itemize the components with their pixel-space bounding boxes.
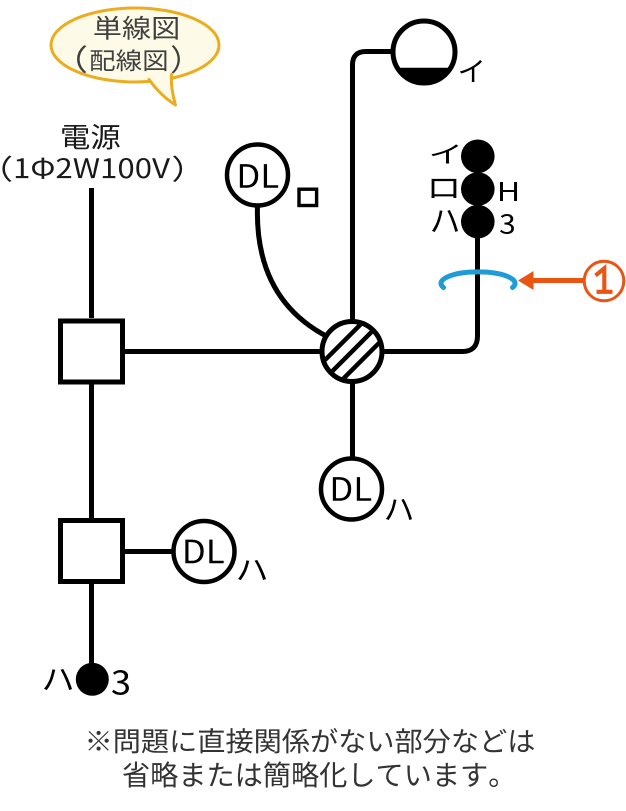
note line2 [123, 761, 498, 787]
label HA (switch) [432, 210, 458, 232]
label HA (bottom DL) [386, 499, 412, 520]
bubble text line2 open paren [77, 45, 86, 73]
wire: ceiling rosette to joint box [353, 52, 394, 322]
switch I (top dot) [461, 140, 495, 174]
VVF joint box (hatched circle) [313, 313, 392, 392]
orange arrow head [518, 271, 534, 290]
label HA (bottom switch) [44, 669, 72, 690]
label 3 (bottom switch) [112, 670, 129, 695]
blue arc marker (cable count) [441, 272, 515, 288]
label DENGEN (power source) [62, 124, 120, 150]
downlight DL RO (top) [227, 145, 288, 206]
downlight DL HA (left) [174, 521, 235, 582]
power spec 1phi2W100V [16, 158, 170, 179]
text DL (left downlight) [185, 540, 223, 564]
label I (switch) [431, 144, 458, 163]
orange arrow shaft [532, 278, 588, 283]
text DL (top downlight) [240, 164, 278, 188]
label RO square (top DL) [299, 189, 317, 205]
bubble text line2 close paren [172, 45, 180, 73]
wire: box1 to joint box [125, 349, 323, 354]
switch RO with pilot lamp H (middle dot) [461, 172, 495, 206]
label H (pilot lamp) [500, 182, 517, 201]
speech bubble tail [149, 75, 176, 106]
wire: joint box right, up to switch stack [382, 238, 478, 352]
3-way switch HA (bottom black dot) [76, 663, 109, 696]
power spec open paren [2, 156, 11, 182]
label I (ceiling rosette) [460, 60, 482, 82]
callout number 1 circle [584, 261, 624, 301]
downlight DL HA (center-bottom) [321, 459, 382, 520]
wire: power lead down to box 1 [89, 188, 94, 318]
bubble text line1 (tansenzu) [94, 16, 177, 40]
power spec close paren [173, 156, 182, 183]
label RO (switch) [431, 179, 456, 198]
bubble text line2 (haisenzu) [91, 49, 167, 71]
wire: downlight DL RO to joint box (curved) [257, 206, 328, 338]
label HA (left DL) [238, 560, 266, 580]
wire: box2 down to 3-way switch HA [89, 584, 94, 666]
wire: joint box down to downlight DL HA (center) [350, 382, 355, 458]
junction box B2 (square) [61, 521, 123, 582]
ceiling rosette I (circle w/ filled bottom segment) [393, 21, 455, 83]
callout digit 1 [596, 268, 613, 292]
wire: box2 to downlight DL HA (left) [125, 549, 174, 554]
speech bubble outline [51, 8, 219, 82]
wire: box1 to box2 [89, 384, 94, 518]
junction box B1 (square) [61, 321, 123, 382]
note line1 [88, 728, 534, 754]
label 3 (3-way switch) [500, 214, 514, 234]
3-way switch HA (third dot) [461, 205, 495, 239]
text DL (bottom downlight) [333, 477, 371, 501]
